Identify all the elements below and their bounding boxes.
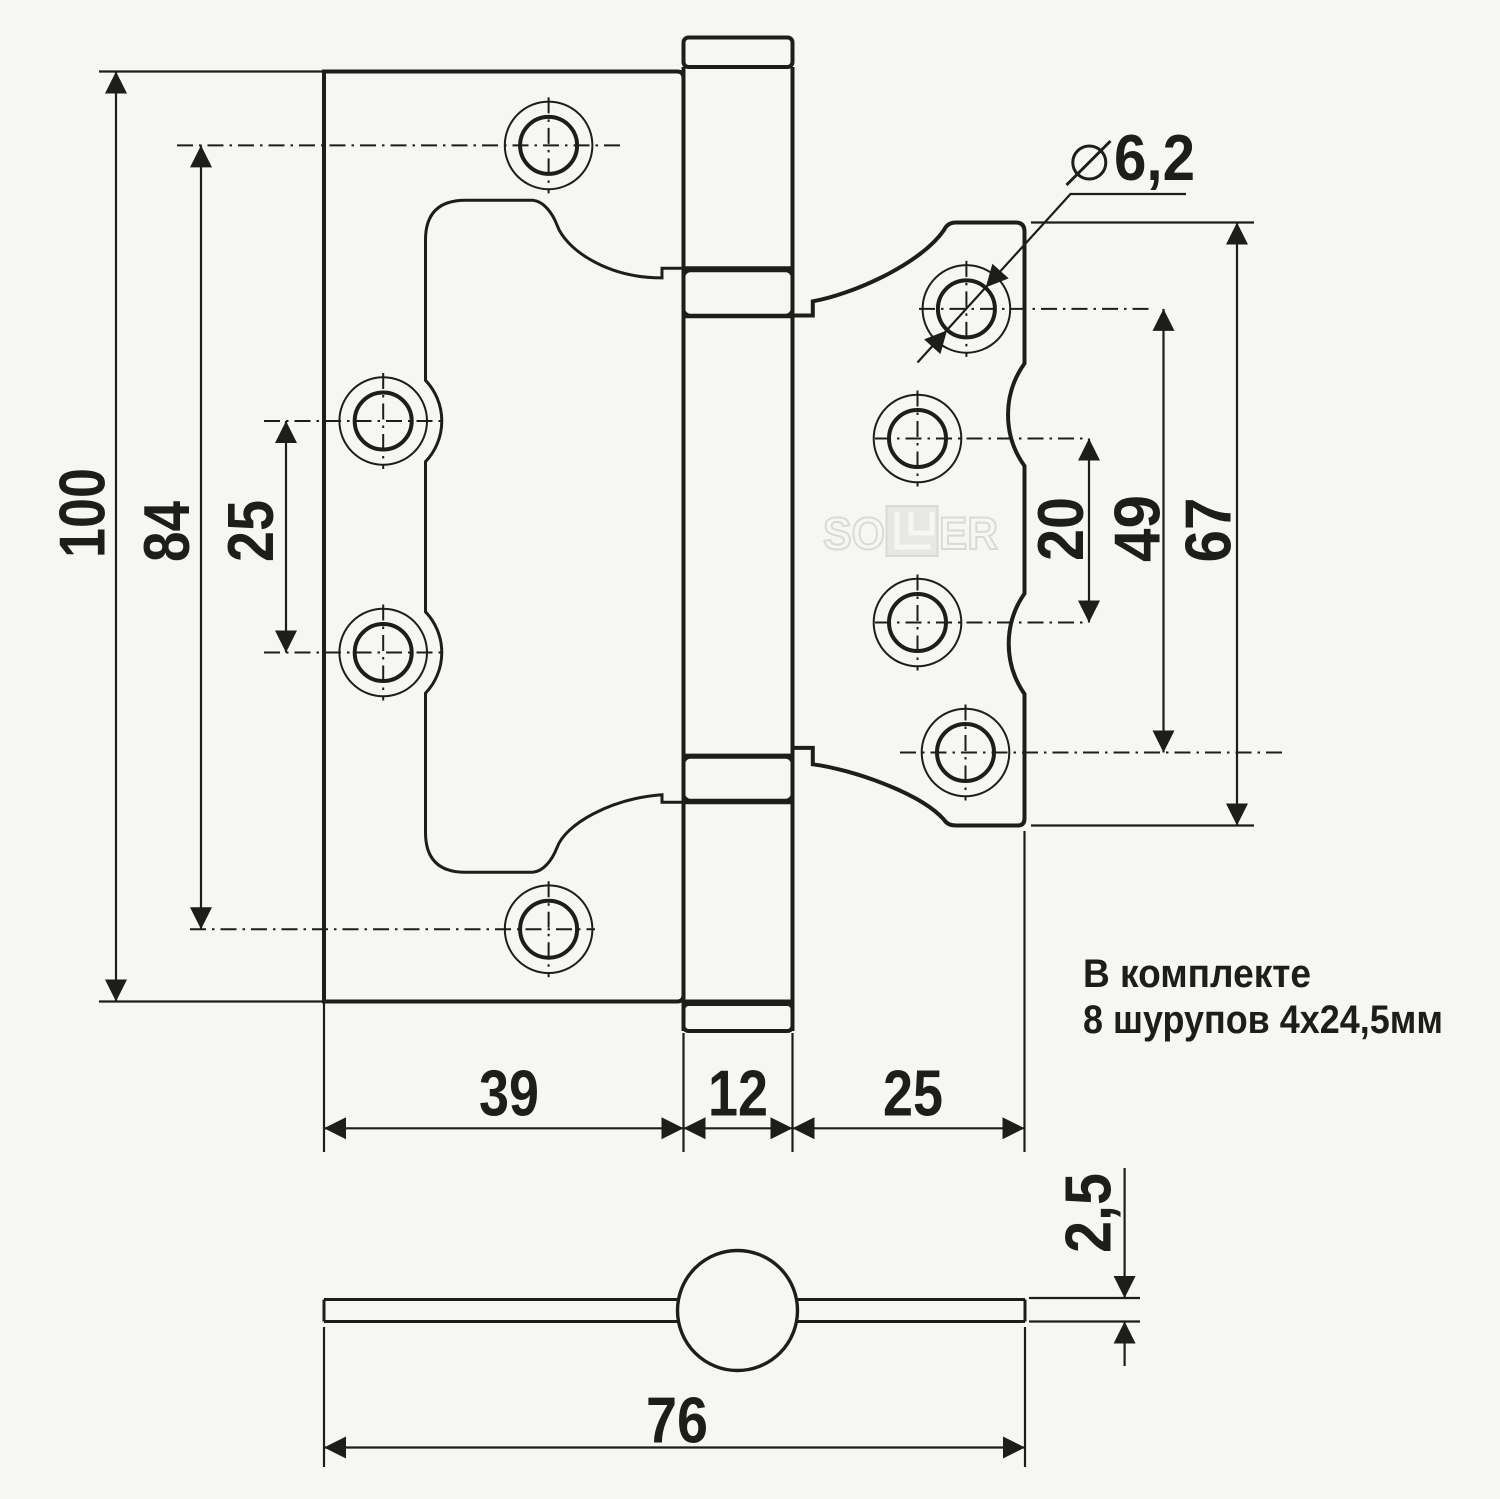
knuckle separator mid-bottom [684, 754, 793, 757]
extension line thickness bottom [1029, 1320, 1140, 1322]
side view knuckle circle [678, 1251, 798, 1371]
svg-text:39: 39 [479, 1057, 539, 1130]
extension line side left [323, 1327, 325, 1467]
dimension 76 arrows [324, 1437, 1025, 1459]
diameter symbol [1067, 141, 1111, 185]
svg-text:76: 76 [646, 1384, 708, 1457]
screw hole R1 vertical centerline [965, 261, 967, 357]
extension line right bottom [1031, 824, 1254, 826]
dimension 76 line [324, 1446, 1025, 1448]
side view plate top line [324, 1298, 1025, 1301]
dimension 100 arrows [105, 72, 127, 1002]
extension line thickness top [1029, 1297, 1140, 1299]
barrel bottom cap [684, 1004, 793, 1031]
centerline hole L4 row [190, 928, 595, 930]
dimension label 67 [1172, 498, 1245, 563]
svg-text:SO: SO [823, 508, 885, 559]
dimension label 76 [646, 1384, 708, 1457]
left hinge leaf outline [324, 72, 684, 1002]
extension line leaf left bottom [323, 1004, 325, 1153]
right hinge leaf outline [793, 223, 1025, 826]
dimension 84 line [200, 145, 202, 929]
dimension label 39 [479, 1057, 539, 1130]
dimension 20 line [1088, 439, 1090, 623]
dimension 25 left line [285, 421, 287, 653]
dimension label 49 [1101, 495, 1174, 562]
dimension 67 line [1236, 223, 1238, 826]
dimension line 39-12-25 [324, 1127, 1025, 1129]
screw hole L1 [505, 102, 593, 190]
dimension label 100 [46, 468, 119, 558]
middle knuckle [684, 271, 793, 316]
svg-text:8 шурупов 4х24,5мм: 8 шурупов 4х24,5мм [1083, 998, 1443, 1042]
screw hole L4 vertical centerline [548, 881, 550, 977]
knuckle separator mid-top [684, 315, 793, 318]
dimension label 2,5 [1052, 1173, 1125, 1253]
barrel left wall [682, 67, 686, 1031]
side view plate left end [323, 1300, 326, 1322]
centerline hole R2 row [875, 438, 1085, 440]
extension line right leaf bottom [1023, 831, 1025, 1152]
screw hole R4 [922, 709, 1010, 797]
extension line right top [1031, 221, 1254, 223]
screw hole R2 [874, 395, 962, 483]
screw hole R1 [923, 265, 1011, 353]
extension line bottom left [99, 1000, 324, 1002]
left leaf cutout [426, 200, 684, 872]
screw hole L3 [339, 609, 427, 697]
screw hole R3 vertical centerline [917, 575, 919, 671]
knuckle separator top [684, 266, 793, 270]
screw hole L3 vertical centerline [382, 605, 384, 701]
leader arrows on hole R1 [924, 264, 1009, 354]
extension line barrel right bottom [791, 1033, 793, 1152]
centerline hole L2 row [264, 420, 445, 422]
side view plate right end [1024, 1300, 1027, 1322]
diameter label 6,2 [1114, 121, 1195, 194]
barrel right wall [791, 67, 795, 1031]
centerline hole R1 row [919, 308, 1152, 310]
side view plate bottom line [324, 1320, 1025, 1323]
screw hole L2 vertical centerline [382, 373, 384, 469]
knuckle separator bottom [684, 800, 793, 804]
dimension 2,5 arrows [1114, 1276, 1136, 1344]
dimension 49 arrows [1153, 309, 1175, 753]
dimension 84 arrows [190, 145, 212, 929]
extension line top left [99, 70, 324, 72]
svg-text:2,5: 2,5 [1052, 1173, 1125, 1253]
dimension arrows 39-12-25 [324, 1117, 1025, 1139]
svg-text:6,2: 6,2 [1114, 121, 1195, 194]
dimension label 25 [883, 1057, 943, 1130]
centerline hole R3 row [875, 622, 1085, 624]
dimension 100 line [115, 72, 117, 1002]
centerline hole L1 row [177, 144, 622, 146]
dimension 25 left arrows [275, 421, 297, 653]
screw hole L1 vertical centerline [548, 97, 550, 193]
leader line diameter callout [918, 194, 1187, 363]
centerline hole R4 row [900, 752, 1285, 754]
svg-text:ER: ER [939, 508, 998, 559]
note line 2 [1083, 998, 1443, 1042]
screw hole R2 vertical centerline [917, 391, 919, 487]
dimension 49 line [1162, 309, 1164, 753]
dimension label 12 [708, 1057, 768, 1130]
svg-text:84: 84 [130, 501, 203, 562]
svg-text:100: 100 [46, 468, 119, 558]
dimension 2,5 lines [1123, 1168, 1125, 1366]
svg-text:В комплекте: В комплекте [1083, 952, 1311, 996]
centerline hole L3 row [264, 652, 445, 654]
barrel top cap [684, 38, 793, 68]
svg-text:25: 25 [883, 1057, 943, 1130]
barrel bottom separator [684, 1000, 793, 1004]
lower knuckle [684, 757, 793, 801]
svg-text:25: 25 [214, 500, 287, 562]
note line 1 [1083, 952, 1311, 996]
dimension 67 arrows [1226, 223, 1248, 826]
SOLLER watermark [823, 506, 998, 559]
screw hole L4 [505, 885, 593, 973]
extension line side right [1024, 1327, 1026, 1467]
screw hole R4 vertical centerline [965, 705, 967, 801]
svg-text:20: 20 [1024, 497, 1097, 561]
extension line barrel left bottom [682, 1033, 684, 1152]
dimension label 84 [130, 501, 203, 562]
dimension label 25 left [214, 500, 287, 562]
svg-text:12: 12 [708, 1057, 768, 1130]
svg-text:49: 49 [1101, 495, 1174, 562]
screw hole L2 [339, 377, 427, 465]
dimension 20 arrows [1078, 439, 1100, 623]
screw hole R3 [874, 579, 962, 667]
svg-text:67: 67 [1172, 498, 1245, 563]
dimension label 20 [1024, 497, 1097, 561]
